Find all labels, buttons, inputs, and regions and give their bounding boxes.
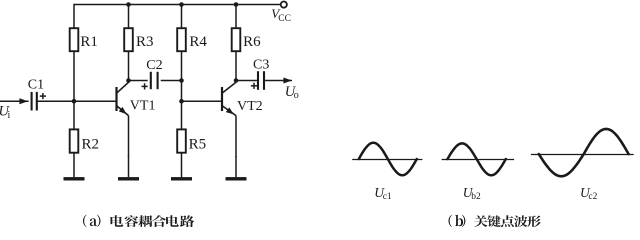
label VCC — [271, 6, 291, 24]
wire VT2 emitter down — [235, 116, 237, 157]
polarity + of C2 — [142, 83, 148, 89]
arrow input signal — [19, 98, 28, 104]
label VT2 — [237, 99, 263, 114]
capacitor C1 — [32, 92, 37, 111]
wire node C to VT2 base — [182, 100, 223, 102]
svg-text:o: o — [294, 90, 299, 101]
arrow output signal — [283, 78, 292, 84]
label R3 — [136, 34, 154, 50]
caption (b) 关键点波形 — [449, 215, 541, 228]
ground (VT2 emitter) — [226, 156, 247, 181]
label Uc2 — [580, 185, 598, 202]
label C2 — [146, 58, 162, 73]
transistor VT2 — [222, 81, 236, 116]
resistor R1 — [70, 28, 79, 51]
wire rail to R3 — [128, 5, 130, 29]
label Ui — [0, 104, 11, 121]
svg-text:CC: CC — [278, 14, 291, 24]
ground (below R2) — [64, 153, 85, 181]
svg-text:c1: c1 — [383, 192, 392, 202]
node B (C2 junction) — [179, 78, 184, 83]
waveform Ub2 baseline — [442, 159, 514, 161]
node C (VT2 base bias) — [179, 99, 184, 104]
junction rail/R6 — [234, 2, 239, 7]
wire C2 to node B — [161, 80, 182, 82]
label R4 — [189, 34, 207, 50]
polarity + of C1 — [40, 93, 46, 99]
wire node A to R2 — [73, 101, 75, 129]
svg-text:C1: C1 — [28, 77, 44, 92]
waveform Ub2 sine — [448, 143, 506, 175]
svg-text:R5: R5 — [189, 137, 207, 153]
polarity + of C3 — [251, 83, 257, 89]
waveform Uc1 baseline — [352, 159, 422, 161]
svg-text:R2: R2 — [82, 137, 100, 153]
svg-text:R1: R1 — [80, 34, 98, 50]
svg-text:C3: C3 — [253, 57, 269, 72]
label R1 — [80, 34, 98, 50]
svg-text:R4: R4 — [189, 34, 207, 50]
label R2 — [82, 137, 100, 153]
label C1 — [28, 77, 44, 92]
wire input Ui — [0, 100, 29, 102]
transistor VT1 — [117, 81, 129, 116]
label R5 — [189, 137, 207, 153]
resistor R2 — [70, 129, 79, 152]
svg-text:C2: C2 — [146, 58, 162, 73]
junction rail/R4 — [179, 2, 184, 7]
waveform Uc2 sine — [539, 129, 629, 176]
wire R3 to VT1 collector node — [128, 51, 130, 80]
resistor R5 — [177, 129, 186, 152]
resistor R6 — [232, 28, 241, 51]
waveform Uc1 sine — [359, 143, 417, 176]
svg-text:c2: c2 — [588, 192, 597, 202]
label Uo — [285, 84, 299, 101]
wire VT2 collector to C3 — [236, 80, 257, 82]
waveform Uc2 baseline — [531, 154, 634, 156]
terminal VCC — [281, 2, 287, 8]
wire rail to R6 — [235, 5, 237, 29]
label R6 — [243, 34, 261, 50]
wire rail to R4 — [181, 5, 183, 29]
wire rail to R1 — [73, 4, 75, 28]
resistor R4 — [177, 28, 186, 51]
wire R4 to node B — [181, 51, 183, 80]
capacitor C2 — [151, 72, 158, 89]
svg-text:VT1: VT1 — [130, 98, 156, 113]
label C3 — [253, 57, 269, 72]
wire node C to R5 — [181, 101, 183, 129]
label VT1 — [130, 98, 156, 113]
wire node B to node C — [181, 81, 183, 102]
svg-text:b2: b2 — [471, 192, 481, 202]
label Ub2 — [463, 185, 481, 202]
svg-text:R6: R6 — [243, 34, 261, 50]
wire VT1 emitter down — [128, 116, 130, 157]
wire VT1 collector to C2 — [129, 80, 148, 82]
wire C3 to output — [265, 80, 292, 82]
wire R6 to VT2 collector node — [235, 51, 237, 80]
caption (a) 电容耦合电路 — [83, 215, 194, 228]
svg-text:i: i — [8, 110, 11, 121]
junction rail/R3 — [126, 2, 131, 7]
node VT2 collector — [234, 78, 239, 83]
svg-text:VT2: VT2 — [237, 99, 263, 114]
wire R1 to node A — [73, 51, 75, 101]
resistor R3 — [124, 28, 133, 51]
wire VCC supply rail — [74, 4, 280, 6]
node VT1 collector — [126, 78, 131, 83]
capacitor C3 — [258, 71, 264, 90]
svg-text:R3: R3 — [136, 34, 154, 50]
wire C1 to VT1 base — [37, 100, 117, 102]
ground (VT1 emitter) — [118, 156, 139, 181]
label Uc1 — [374, 185, 392, 202]
node A (VT1 base bias) — [72, 99, 77, 104]
ground (below R5) — [171, 153, 192, 181]
